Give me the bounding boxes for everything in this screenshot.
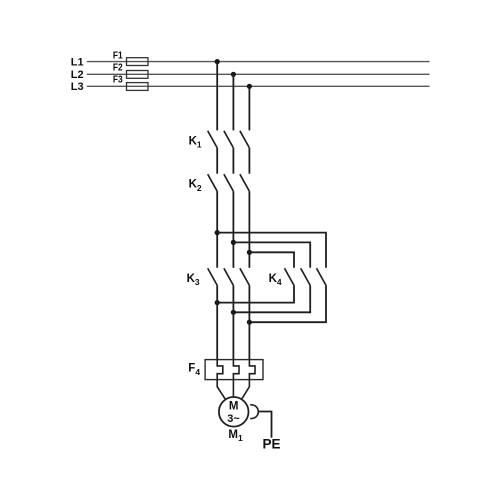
node phase3 to K4 branch	[247, 250, 252, 255]
contactor K4 pole 1 blade	[285, 268, 295, 285]
wire phase1 L1 to K1	[216, 62, 218, 131]
motor M1 circle	[219, 397, 249, 427]
wire phase3 branch to K4 pole1	[249, 252, 294, 267]
fuse F2	[127, 71, 149, 79]
wire phase3 K2 to K3	[248, 191, 250, 267]
contactor K3 pole 2 blade	[224, 268, 234, 285]
wire phase1 branch to K4 pole3	[217, 233, 326, 268]
node K4 pole1 to phase1	[215, 300, 220, 305]
wire K4 pole1 return to phase1	[217, 285, 294, 302]
node K4 pole2 to phase2	[231, 310, 236, 315]
contactor K2 pole 1 blade	[208, 174, 218, 191]
contactor K2 pole 3 blade	[240, 174, 250, 191]
wire phase3 K3 to F4	[248, 285, 250, 359]
svg-text:M: M	[229, 400, 239, 412]
overload relay F4 heater phase1	[217, 360, 223, 380]
wire K4 pole2 return to phase2	[233, 285, 310, 312]
wire phase1 K1 to K2	[216, 148, 218, 174]
fuse F1	[127, 58, 149, 66]
contactor K2 pole 2 blade	[224, 174, 234, 191]
svg-text:F1: F1	[113, 51, 123, 62]
wire phase3 L3 to K1	[248, 86, 250, 130]
wire L1 bus	[87, 61, 430, 63]
contactor K1 pole 3 blade	[240, 131, 250, 148]
wire phase3 F4 to motor	[241, 380, 249, 400]
wire phase3 K1 to K2	[248, 148, 250, 174]
PE terminal arc	[250, 405, 258, 419]
wire phase2 K1 to K2	[232, 148, 234, 174]
contactor K1 pole 2 blade	[224, 131, 234, 148]
svg-text:L1: L1	[71, 56, 84, 68]
svg-text:L3: L3	[71, 81, 84, 93]
wire L3 bus	[87, 85, 430, 87]
wire phase2 K2 to K3	[232, 191, 234, 267]
wire phase2 L2 to K1	[232, 74, 234, 130]
overload relay F4 heater phase2	[233, 360, 239, 380]
wire phase2 branch to K4 pole2	[233, 242, 310, 267]
node L1 tap	[215, 59, 220, 64]
wire phase1 K2 to K3	[216, 191, 218, 267]
contactor K4 pole 2 blade	[301, 268, 311, 285]
svg-text:3~: 3~	[227, 413, 240, 425]
contactor K3 pole 3 blade	[240, 268, 250, 285]
svg-text:PE: PE	[263, 437, 281, 452]
wire phase1 F4 to motor	[217, 380, 226, 400]
node K4 pole3 to phase3	[247, 320, 252, 325]
fuse F3	[127, 83, 149, 91]
node L2 tap	[231, 72, 236, 77]
svg-text:L2: L2	[71, 69, 84, 81]
wire phase1 K3 to F4	[216, 285, 218, 359]
node phase2 to K4 branch	[231, 240, 236, 245]
wire phase2 F4 to motor	[232, 380, 234, 398]
wire L2 bus	[87, 73, 430, 75]
overload relay F4 box	[205, 360, 263, 380]
svg-text:F2: F2	[113, 62, 123, 73]
contactor K4 pole 3 blade	[317, 268, 327, 285]
svg-text:F3: F3	[113, 74, 123, 85]
wire K4 pole3 return to phase3	[249, 285, 326, 322]
contactor K1 pole 1 blade	[208, 131, 218, 148]
wire phase2 K3 to F4	[232, 285, 234, 359]
wire PE	[259, 412, 272, 438]
overload relay F4 heater phase3	[249, 360, 255, 380]
node L3 tap	[247, 84, 252, 89]
contactor K3 pole 1 blade	[208, 268, 218, 285]
node phase1 to K4 branch	[215, 230, 220, 235]
